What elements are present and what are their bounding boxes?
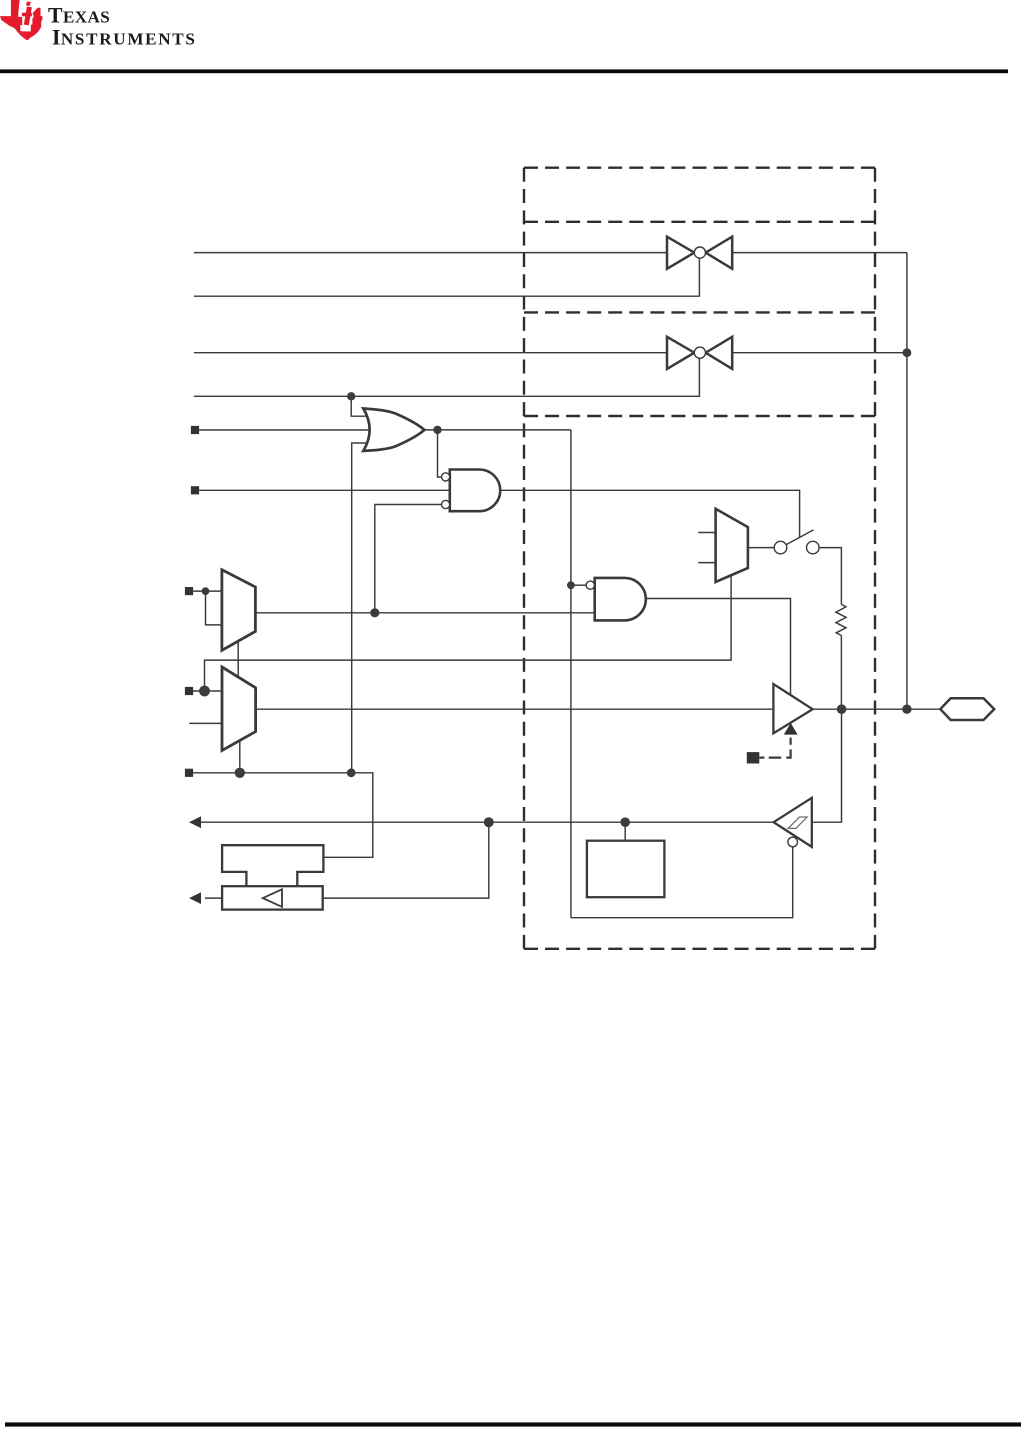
pulse block bottom rectangle: [222, 886, 323, 909]
wire node to delay box: [624, 822, 626, 841]
AND gate U3 (one bubbled input): [595, 578, 646, 621]
mux M3 trapezoid: [716, 509, 748, 582]
clamp 2 center circle: [694, 347, 705, 358]
node S5-OR riser: [347, 768, 356, 777]
wire S5 run to pulse block: [193, 773, 373, 858]
TI logo red Texas bug: [0, 0, 42, 40]
wire resistor to output node: [840, 636, 842, 710]
arrowhead left on block2 output: [189, 892, 201, 904]
schmitt trigger U5 (left pointing): [774, 798, 812, 847]
node output-resistor: [837, 704, 847, 714]
arrowhead left on schmitt line: [189, 816, 201, 828]
node mux1 output to AND1: [370, 608, 379, 617]
svg-text:INSTRUMENTS: INSTRUMENTS: [52, 26, 197, 50]
input terminal square S5: [185, 769, 193, 777]
node on clamp2 control feeding OR gate: [347, 392, 355, 400]
wire OR output down to AND1 top bubble: [438, 430, 442, 477]
wire schmitt output line to left arrow: [193, 821, 774, 823]
node schmitt line to block2: [484, 817, 494, 827]
AND gate U2 (two bubbled inputs): [450, 470, 500, 512]
input terminal square S3: [185, 587, 193, 595]
wire clamp 2 output: [732, 352, 907, 354]
delay box: [587, 841, 665, 898]
wire buffer output to pad: [813, 708, 941, 710]
node schmitt line to delay box: [620, 817, 630, 827]
node S5-mux2 select: [235, 768, 245, 778]
input terminal square S2: [191, 486, 199, 494]
wire mux M2 lower input stub: [189, 722, 222, 724]
top rule: [0, 69, 1008, 73]
schmitt output bubble: [788, 837, 798, 847]
wire S1 to OR gate middle input: [199, 429, 370, 431]
output buffer U4 triangle: [773, 684, 812, 733]
node feedback to AND2: [567, 581, 575, 589]
svg-text:TEXAS: TEXAS: [48, 4, 110, 28]
wire AND1 output to switch lever: [500, 490, 799, 537]
wire switch to resistor: [819, 548, 841, 605]
wire mux M3 input stub 2: [698, 562, 715, 564]
node OR output: [433, 426, 441, 434]
input terminal square S4: [185, 687, 193, 695]
I/O pad hexagon: [940, 698, 994, 720]
pulse block top (T shape): [222, 845, 323, 886]
clamp 1 center circle: [694, 247, 705, 258]
wire S3 branch to mux M1 second input: [206, 591, 222, 625]
clamp cell 1 (back-to-back triangles): [667, 237, 732, 269]
wire S4 to mux M2: [193, 690, 222, 692]
OE arrowhead into buffer: [784, 723, 798, 735]
wire AND1 bottom input from mux1 output node: [375, 505, 442, 613]
switch SW1 right contact: [807, 541, 820, 554]
wire mux M3 output to switch: [748, 547, 774, 549]
wire OR gate top input: [351, 396, 367, 416]
mux M1 trapezoid: [222, 570, 256, 651]
wire OR gate bottom input riser: [352, 443, 368, 773]
wire feedback node to AND2 bubble: [571, 584, 586, 586]
wire mux M1 select down to mux M2: [237, 641, 239, 677]
wire node down to block2 input: [322, 822, 489, 898]
wire S4 node up and across to mux M3 select: [205, 576, 732, 691]
mux M2 trapezoid: [222, 667, 256, 751]
wire AND2 output to buffer enable: [646, 599, 791, 695]
wire mux M1 output to AND2: [255, 612, 594, 614]
node S4 branch: [199, 686, 210, 697]
OR gate U1: [363, 409, 424, 451]
AND1 top input bubble: [442, 473, 450, 481]
bottom rule: [5, 1422, 1021, 1426]
OE dashed control line: [759, 738, 790, 759]
node clamp2 output joins right bus: [903, 348, 912, 357]
AND1 bottom input bubble: [442, 500, 450, 508]
small left triangle inside block2: [263, 889, 282, 907]
wire mux M3 input stub 1: [698, 532, 715, 534]
wire block2 output to left arrow: [205, 897, 222, 899]
wire output node down to schmitt input: [812, 709, 842, 822]
clamp cell 2 (back-to-back triangles): [667, 337, 732, 369]
dashed boundary box (top section): [524, 168, 875, 949]
switch SW1 lever: [786, 530, 813, 545]
wire right vertical bus: [906, 253, 908, 710]
wire clamp 2 control: [194, 359, 700, 397]
AND2 top input bubble: [586, 581, 594, 589]
wire mux M2 select down to S5 line: [239, 741, 241, 773]
switch SW1 left contact: [774, 541, 787, 554]
wire OR output: [424, 429, 571, 431]
node output-right bus: [902, 705, 911, 714]
wire clamp 1 control: [194, 259, 700, 297]
wire feedback vertical (OR line down to bottom): [570, 430, 572, 918]
input terminal square S1: [191, 426, 199, 434]
wire S3 to mux M1: [193, 590, 222, 592]
OE control square: [747, 752, 760, 763]
wire B-input to clamp 2: [194, 352, 667, 354]
wire clamp 1 output to right bus: [732, 252, 907, 254]
node S3 branch: [202, 587, 210, 595]
resistor R1 zigzag: [836, 604, 846, 635]
wire mux M2 output to output buffer: [256, 708, 774, 710]
wire S2 to AND1 middle input: [199, 489, 450, 491]
schmitt hysteresis symbol: [788, 817, 807, 828]
wire A-input to clamp 1: [194, 252, 667, 254]
wire schmitt bubble feedback to OR line: [571, 847, 793, 918]
